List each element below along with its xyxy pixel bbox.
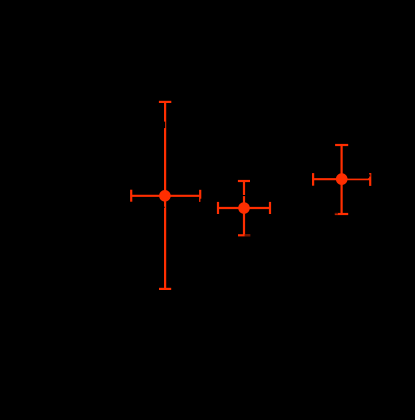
point 2 top cap	[238, 180, 250, 182]
black label nick on point 3 right cap	[369, 174, 370, 176]
point 3 x error bar	[313, 178, 370, 180]
point 1 x error bar	[131, 195, 200, 197]
black label overlap on point 1 y error bar	[163, 122, 165, 129]
point 2 x error bar	[218, 207, 270, 209]
shaded right half of point 2 bottom cap	[245, 234, 251, 236]
black label overlap on point 1 right cap	[200, 199, 201, 202]
black label nick below point 1 marker	[163, 207, 164, 208]
point 2 y error bar	[243, 181, 245, 235]
point 2 left cap	[217, 202, 219, 214]
point 1 y error bar	[164, 102, 166, 289]
point 2 marker	[238, 202, 250, 214]
dimmed thin segment of point 3 x error bar	[348, 177, 369, 180]
point 3 right cap	[369, 173, 371, 186]
point 3 bottom cap	[335, 213, 348, 215]
black label band on point 2 y error bar	[243, 195, 246, 196]
point 2 right cap	[269, 202, 271, 214]
point 2 bottom cap	[238, 234, 250, 236]
point 1 bottom cap	[159, 288, 171, 290]
point 1 marker	[159, 190, 171, 202]
point 3 top cap	[335, 144, 348, 146]
point 1 top cap	[159, 101, 171, 103]
point 1 right cap	[199, 190, 201, 202]
point 3 marker	[336, 173, 348, 185]
shaded left end of point 3 bottom cap	[335, 213, 338, 215]
point 1 left cap	[130, 190, 132, 202]
point 3 y error bar	[341, 145, 343, 214]
point 3 left cap	[312, 173, 314, 186]
